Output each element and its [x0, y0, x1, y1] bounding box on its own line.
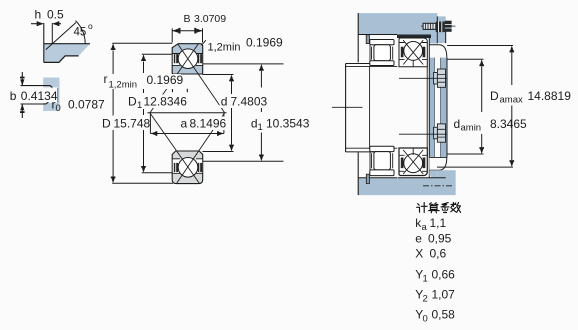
svg-text:0,6: 0,6 — [430, 247, 447, 261]
housing-flange joint line — [436, 16, 438, 43]
svg-text:1,2min: 1,2min — [109, 80, 138, 91]
housing bottom step band — [429, 170, 437, 180]
cage bar left — [174, 54, 178, 63]
h dimension arrows — [31, 23, 61, 25]
housing block top edge line (under bearing) — [398, 177, 446, 179]
D_amax dimension — [437, 46, 513, 168]
upper slot piece with rounded corner — [429, 45, 447, 58]
upper bearing cross-section — [150, 44, 224, 113]
算 — [429, 203, 438, 205]
lower bolt dash-dot line — [423, 185, 453, 187]
seal tab lower — [366, 174, 369, 183]
svg-text:D: D — [490, 89, 499, 103]
svg-text:amax: amax — [500, 95, 523, 106]
shaft centerline — [332, 106, 363, 108]
svg-text:r: r — [104, 72, 108, 86]
svg-text:1,07: 1,07 — [432, 288, 456, 302]
svg-text:0: 0 — [56, 103, 61, 114]
cage bar right — [198, 163, 202, 172]
b dimension arrows — [21, 72, 23, 85]
inner+outer ring gray box — [172, 151, 203, 184]
svg-text:D: D — [102, 117, 111, 131]
groove detail blue section — [43, 78, 59, 112]
housing cover edge lower — [369, 152, 371, 171]
label D1 12.8346 — [127, 95, 190, 112]
svg-text:3.0709: 3.0709 — [194, 13, 226, 25]
ball — [178, 158, 198, 178]
svg-text:a: a — [181, 117, 188, 131]
housing left face — [357, 13, 359, 62]
lock nut bore edge line — [369, 66, 371, 149]
svg-text:1: 1 — [258, 122, 263, 133]
housing cover edge upper — [369, 44, 371, 63]
chamfer h extension line — [51, 23, 53, 44]
chamfer detail blue section — [44, 23, 90, 62]
contact lines lower ball — [150, 113, 200, 183]
d1 dimension line — [203, 64, 284, 161]
svg-text:1,2min: 1,2min — [208, 42, 241, 54]
contact lines upper ball — [178, 44, 225, 113]
计 — [418, 204, 420, 206]
leader ticks below r label — [173, 88, 188, 92]
svg-text:h: h — [35, 8, 42, 22]
svg-text:7.4803: 7.4803 — [231, 95, 268, 109]
a dimension line — [150, 113, 224, 134]
ball — [178, 49, 198, 69]
svg-text:1: 1 — [137, 100, 142, 111]
svg-text:0.5: 0.5 — [47, 8, 64, 22]
housing top block — [358, 13, 437, 34]
B dimension — [172, 28, 202, 42]
seal tab upper — [366, 35, 369, 44]
svg-text:8.3465: 8.3465 — [490, 117, 527, 131]
svg-text:b: b — [10, 89, 17, 103]
label d1 10.3543 — [250, 117, 312, 134]
outer+inner ring blue box — [172, 44, 203, 74]
svg-text:12.8346: 12.8346 — [144, 95, 188, 109]
label d 7.4803 — [220, 95, 269, 109]
flange root upper — [438, 16, 446, 43]
svg-text:e: e — [415, 232, 422, 246]
svg-text:o: o — [88, 21, 93, 31]
flange nut lower — [434, 124, 446, 142]
lower bearing cross-section — [150, 113, 225, 184]
between-rings white zone — [173, 54, 202, 65]
flange nut upper — [434, 69, 446, 87]
svg-text:0.1969: 0.1969 — [147, 73, 184, 87]
bolt centerline lower — [399, 133, 448, 135]
cage bar right — [198, 54, 202, 63]
svg-text:14.8819: 14.8819 — [528, 89, 572, 103]
lock nut lower — [370, 146, 394, 175]
svg-text:X: X — [415, 247, 423, 261]
svg-text:d: d — [221, 95, 228, 109]
lock nut upper — [370, 40, 394, 66]
r 1,2min leader (right) — [202, 40, 206, 45]
svg-text:2: 2 — [423, 294, 428, 305]
between-rings white zone — [173, 159, 202, 173]
CJK heading (drawn as paths: 计算系数) — [417, 203, 461, 213]
groove b top face line — [21, 86, 53, 88]
flange plate strip B — [441, 58, 448, 158]
d dimension line — [203, 75, 234, 152]
lower bearing (right figure) — [399, 148, 427, 176]
svg-text:0.1969: 0.1969 — [246, 36, 283, 50]
D dimension line — [112, 43, 173, 183]
spigot strip A — [429, 58, 434, 158]
upper bearing (right figure) — [399, 38, 427, 67]
svg-text:8.1496: 8.1496 — [190, 117, 227, 131]
svg-text:45: 45 — [74, 27, 87, 39]
housing block top edge lower — [358, 177, 397, 179]
svg-text:B: B — [184, 13, 191, 25]
top bolt — [421, 21, 456, 32]
housing bore edge line — [428, 38, 430, 179]
raceway shoulder lines — [172, 53, 203, 55]
bearing bore edge line — [426, 67, 428, 148]
bearing seat bar upper — [397, 35, 431, 39]
svg-text:amin: amin — [461, 123, 482, 134]
45 degree arc — [76, 21, 86, 44]
housing bottom block — [358, 170, 456, 195]
svg-text:0,95: 0,95 — [428, 232, 452, 246]
svg-text:10.3543: 10.3543 — [266, 117, 310, 131]
svg-text:1,1: 1,1 — [430, 216, 447, 230]
lower slot piece with rounded corner — [429, 157, 447, 170]
housing step band upper — [429, 34, 437, 44]
d_amin dimension — [447, 59, 483, 154]
cage bar left — [174, 163, 178, 172]
数 — [452, 203, 454, 207]
svg-text:a: a — [422, 222, 428, 233]
groove b bottom face line — [21, 102, 49, 104]
svg-text:d: d — [454, 117, 461, 131]
housing block bottom edge — [358, 34, 397, 36]
svg-text:0,66: 0,66 — [432, 268, 456, 282]
D1 dimension line — [142, 54, 173, 173]
svg-text:D: D — [128, 95, 137, 109]
label r 1,2min 0.1969 (left) — [103, 72, 184, 91]
bolt centerline upper — [399, 77, 448, 79]
svg-text:1: 1 — [423, 274, 428, 285]
svg-text:0: 0 — [423, 314, 428, 325]
svg-text:0.0787: 0.0787 — [68, 98, 105, 112]
label a 8.1496 — [179, 117, 228, 131]
svg-text:0,58: 0,58 — [432, 308, 456, 322]
45 degree line — [46, 23, 76, 50]
label D 15.748 — [101, 117, 151, 131]
axis line — [147, 112, 226, 114]
raceway shoulder lines — [172, 158, 203, 160]
系 — [442, 203, 449, 207]
shaft — [346, 64, 398, 152]
svg-text:15.748: 15.748 — [114, 117, 151, 131]
